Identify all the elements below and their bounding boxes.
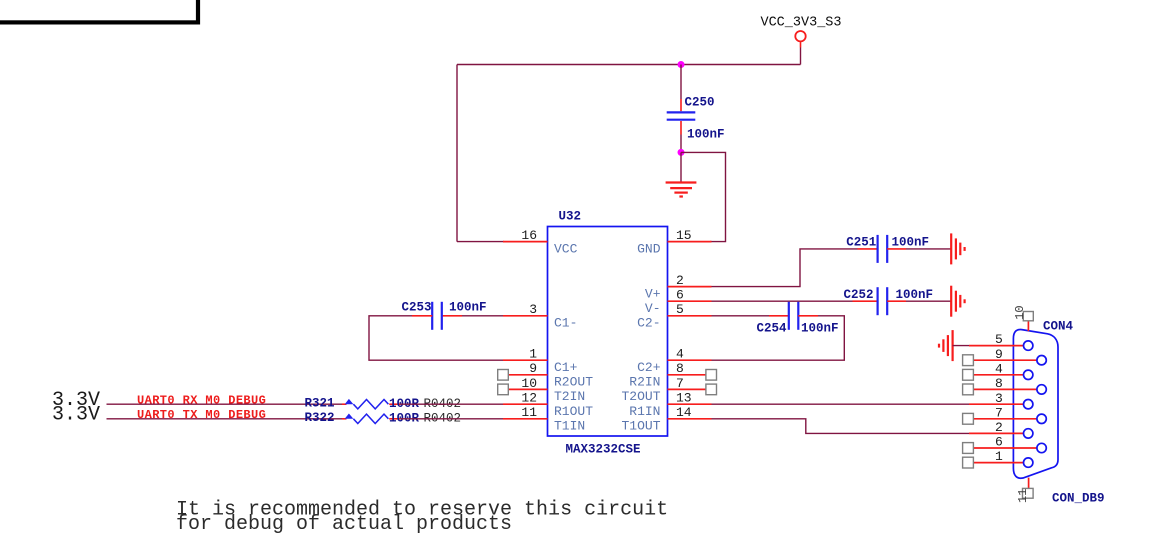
wire UART0_TX to R322 (107, 418, 345, 420)
svg-text:10: 10 (521, 376, 537, 391)
CON4 pin 7 with no-connect square (963, 405, 1047, 424)
ground under C250 (666, 183, 697, 197)
wire R1IN pin 13 to CON4 pin 3 (712, 403, 970, 405)
svg-text:T2OUT: T2OUT (621, 389, 660, 404)
svg-text:C2-: C2- (637, 316, 660, 331)
svg-text:T1OUT: T1OUT (621, 419, 660, 434)
svg-text:R321: R321 (305, 397, 335, 411)
svg-text:C252: C252 (843, 288, 873, 302)
svg-text:4: 4 (676, 347, 684, 362)
junction at C250 top (678, 61, 685, 68)
svg-text:R2OUT: R2OUT (554, 375, 593, 390)
svg-text:6: 6 (676, 288, 684, 303)
svg-text:11: 11 (1016, 489, 1030, 503)
connector CON4 DB9 body (1013, 319, 1104, 505)
U32 pin 15 GND (637, 228, 711, 256)
ground at CON4 pin 5 (939, 330, 953, 361)
capacitor C250 (667, 95, 725, 141)
resistor R321 (305, 397, 462, 411)
U32 pin 13 R1IN (629, 391, 711, 419)
svg-text:7: 7 (995, 405, 1003, 420)
svg-text:100nF: 100nF (801, 321, 839, 335)
svg-text:GND: GND (637, 241, 661, 256)
svg-text:100nF: 100nF (896, 288, 934, 302)
svg-text:14: 14 (676, 405, 692, 420)
svg-text:C1-: C1- (554, 316, 577, 331)
svg-text:R2IN: R2IN (629, 375, 660, 390)
U32 pin 9 R2OUT with no-connect square (498, 361, 594, 389)
svg-text:15: 15 (676, 228, 692, 243)
ground right of C252 (951, 286, 964, 317)
wire junction to GND pin riser (681, 152, 726, 241)
svg-text:UART0_RX_M0_DEBUG: UART0_RX_M0_DEBUG (137, 393, 266, 407)
IC U32 MAX3232CSE body (548, 210, 668, 457)
svg-text:8: 8 (995, 376, 1003, 391)
wire C250 bottom lead (680, 135, 682, 153)
svg-text:7: 7 (676, 376, 684, 391)
power port VCC_3V3_S3 (760, 16, 841, 42)
svg-text:100nF: 100nF (892, 235, 930, 249)
U32 pin 3 C1- (503, 302, 577, 330)
svg-text:R1IN: R1IN (629, 404, 660, 419)
U32 pin 7 T2OUT with no-connect square (621, 376, 716, 404)
capacitor C254 (756, 302, 838, 336)
svg-text:1: 1 (529, 347, 537, 362)
U32 pin 5 C2- (637, 302, 711, 330)
svg-text:V+: V+ (645, 286, 661, 301)
wire VCC riser from port (800, 41, 802, 47)
CON4 pin 10 shield tab top (1013, 305, 1033, 331)
svg-text:11: 11 (521, 405, 537, 420)
svg-text:100nF: 100nF (449, 300, 487, 314)
U32 pin 2 V+ (645, 273, 712, 301)
wire C254 to C2+ pin 4 (712, 316, 845, 360)
svg-text:T2IN: T2IN (554, 389, 585, 404)
CON4 pin 8 with no-connect square (963, 376, 1047, 395)
svg-text:MAX3232CSE: MAX3232CSE (566, 443, 641, 457)
U32 pin 11 T1IN (503, 405, 585, 433)
svg-text:2: 2 (995, 420, 1003, 435)
CON4 pin 6 with no-connect square (963, 435, 1047, 454)
capacitor C253 (401, 300, 486, 329)
svg-text:C253: C253 (401, 300, 431, 314)
resistor R322 (305, 411, 462, 425)
U32 pin 6 V- (645, 288, 712, 316)
wire C253 to C1+ pin 1 (369, 316, 503, 360)
ground right of C251 (951, 233, 964, 264)
wire VCC left drop to pin 16 (456, 65, 458, 242)
svg-text:R1OUT: R1OUT (554, 404, 593, 419)
wire V- net to C252 (712, 300, 858, 302)
wire VCC horizontal trunk (457, 64, 801, 66)
svg-text:V-: V- (645, 301, 661, 316)
wire R321 to U32 pin 12 (400, 403, 503, 405)
capacitor C251 (846, 235, 929, 263)
CON4 pin 5 (969, 332, 1033, 350)
svg-text:T1IN: T1IN (554, 419, 585, 434)
svg-text:4: 4 (995, 361, 1003, 376)
svg-text:3.3V: 3.3V (52, 403, 100, 426)
U32 pin 14 T1OUT (621, 405, 711, 433)
U32 pin 8 R2IN with no-connect square (629, 361, 716, 389)
wire to U32 pin 16 (457, 241, 504, 243)
svg-text:13: 13 (676, 391, 692, 406)
svg-text:VCC: VCC (554, 241, 578, 256)
CON4 pin 11 shield tab bottom (1016, 478, 1033, 503)
svg-text:CON4: CON4 (1043, 319, 1074, 333)
U32 pin 12 R1OUT (503, 391, 593, 419)
svg-text:C1+: C1+ (554, 360, 578, 375)
svg-text:U32: U32 (559, 210, 582, 224)
wire UART0_RX to R321 (107, 403, 345, 405)
CON4 pin 3 (969, 391, 1033, 409)
wire ground stem (680, 152, 682, 181)
svg-text:5: 5 (676, 302, 684, 317)
svg-text:C251: C251 (846, 235, 876, 249)
svg-text:10: 10 (1013, 305, 1027, 319)
capacitor C252 (843, 287, 933, 315)
CON4 pin 9 with no-connect square (963, 347, 1047, 366)
svg-text:12: 12 (521, 391, 537, 406)
U32 pin 16 VCC (503, 228, 578, 256)
svg-text:9: 9 (529, 361, 537, 376)
svg-text:VCC_3V3_S3: VCC_3V3_S3 (760, 16, 841, 31)
svg-text:100nF: 100nF (687, 128, 725, 142)
svg-text:5: 5 (995, 332, 1003, 347)
svg-text:8: 8 (676, 361, 684, 376)
CON4 pin 1 with no-connect square (963, 449, 1033, 468)
wire ground to CON4 pin 5 (953, 345, 969, 347)
CON4 pin 4 with no-connect square (963, 361, 1033, 380)
wire C2- net to C254 (712, 315, 770, 317)
wire C1- net to C253 (462, 315, 503, 317)
U32 pin 4 C2+ (637, 347, 711, 375)
svg-text:CON_DB9: CON_DB9 (1052, 492, 1105, 506)
svg-text:C250: C250 (685, 95, 715, 109)
svg-text:2: 2 (676, 273, 684, 288)
svg-text:3: 3 (529, 302, 537, 317)
svg-text:for debug of actual products: for debug of actual products (176, 513, 512, 536)
svg-text:C254: C254 (756, 322, 787, 336)
svg-text:6: 6 (995, 435, 1003, 450)
svg-text:16: 16 (521, 228, 537, 243)
svg-text:R322: R322 (305, 411, 335, 425)
CON4 pin 2 (969, 420, 1033, 438)
U32 pin 10 T2IN with no-connect square (498, 376, 586, 404)
wire R322 to U32 pin 11 (400, 418, 503, 420)
wire T1OUT pin 14 to CON4 pin 2 (712, 419, 970, 434)
svg-text:3: 3 (995, 391, 1003, 406)
svg-text:UART0_TX_M0_DEBUG: UART0_TX_M0_DEBUG (137, 408, 266, 422)
svg-text:C2+: C2+ (637, 360, 661, 375)
U32 pin 1 C1+ (503, 347, 578, 375)
wire V+ net to C251 (712, 249, 858, 287)
wire C251 to ground (906, 248, 951, 250)
junction at C250 bottom (678, 149, 685, 156)
wire C252 to ground (906, 300, 951, 302)
wire C250 top lead (680, 65, 682, 100)
svg-text:1: 1 (995, 449, 1003, 464)
svg-text:9: 9 (995, 347, 1003, 362)
